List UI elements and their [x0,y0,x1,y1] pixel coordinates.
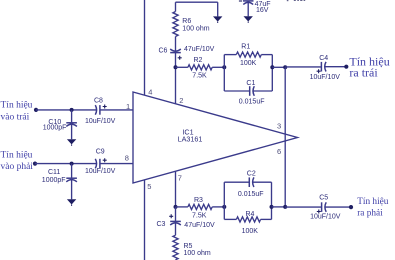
label output left line2 [349,65,378,79]
label C2 value [238,191,264,198]
capacitor C4 [321,62,326,72]
svg-text:7.5K: 7.5K [192,72,207,79]
plus C9 [103,158,107,162]
op-amp IC1 LA3161 triangle [133,92,298,183]
svg-text:vào trái: vào trái [1,113,30,123]
label input left line2 [1,113,30,123]
label C10 value [43,125,67,132]
plus C6 [178,56,182,60]
node pin7/R3 junction [174,205,178,209]
pin 8 label [125,154,129,163]
pin 3 label [277,122,281,131]
label C1 [246,80,255,87]
wire pin4 vertical [144,0,146,95]
label input right line1 [1,151,33,161]
wire output right [325,206,351,208]
svg-text:6: 6 [277,147,281,156]
label C9 [96,149,105,156]
node R3/C2R4 junction [222,205,226,209]
svg-text:vào phải: vào phải [1,162,34,172]
svg-text:R2: R2 [194,57,203,64]
svg-text:Tín hiệu: Tín hiệu [357,197,389,207]
node C11 junction [70,162,74,166]
capacitor C6 [170,49,181,67]
svg-text:R1: R1 [241,44,250,51]
svg-text:C1: C1 [246,80,255,87]
svg-text:C9: C9 [96,149,105,156]
wire to C5 [285,206,321,208]
pin 7 label [178,173,182,182]
wire pin8 [100,163,133,165]
label C5 [319,195,328,202]
svg-text:C5: C5 [319,195,328,202]
svg-text:0.015uF: 0.015uF [239,98,265,105]
svg-text:C11: C11 [48,169,60,176]
label C5 value [310,213,341,220]
wire R6 top rail [176,1,218,3]
svg-text:16V: 16V [256,7,269,14]
resistor R3 [176,204,225,209]
svg-text:8: 8 [125,154,129,163]
plus 47uF cap [239,0,242,2]
svg-text:7: 7 [178,173,182,182]
wire input left [36,109,96,111]
label input right line2 [1,162,34,172]
capacitor C1 [224,86,272,96]
label LA3161 [178,135,203,144]
output terminal right [349,205,353,209]
label R2 value [192,72,207,79]
resistor R5 [173,223,178,260]
svg-text:R5: R5 [184,243,193,250]
svg-text:100K: 100K [242,228,259,235]
svg-text:C3: C3 [157,221,166,228]
wire pin5 vertical [144,180,146,260]
wire pin7 vertical [175,171,177,207]
svg-text:ra phải: ra phải [357,208,383,218]
svg-text:47uF/10V: 47uF/10V [184,46,215,53]
wire input right [35,163,96,165]
label C3 value [184,222,215,229]
plus C3 [169,214,173,218]
label C9 value [85,168,116,175]
ground arrow top rail [213,2,222,23]
svg-text:C4: C4 [319,55,328,62]
wire to C4 [285,66,321,68]
svg-text:R6: R6 [182,18,191,25]
clipped text fragment [287,0,305,1]
svg-text:C2: C2 [247,170,256,177]
svg-text:ra trái: ra trái [349,65,378,79]
wire pin1 [100,109,133,111]
pin 5 label [147,182,151,191]
wire output left [325,66,347,68]
ground arrow C11 [67,180,76,206]
label R4 value [242,228,259,235]
svg-text:C6: C6 [159,47,168,54]
svg-text:Tín hiệu: Tín hiệu [1,151,33,161]
pin 1 label [126,102,130,111]
label C11 value [42,177,66,184]
label 47uF [255,1,271,8]
pin 2 label [179,96,183,105]
label output left line1 [349,54,389,68]
label C6 value [184,46,215,53]
capacitor C3 [170,207,181,225]
label C10 [48,119,61,126]
resistor R2 [176,65,225,70]
wire pin2 vertical [175,67,177,104]
node R1C1 output [270,65,274,69]
label R1 value [240,60,257,67]
svg-text:1000pF: 1000pF [42,177,66,184]
capacitor C9 [95,159,100,169]
svg-text:0.015uF: 0.015uF [238,191,264,198]
capacitor C11 [66,164,77,182]
node pin2/R2 junction [174,65,178,69]
resistor R4 [224,217,271,222]
wire C2R4 left branch [223,182,225,219]
resistor R1 [224,52,272,57]
wire R1C1 right branch [271,55,273,91]
wire output bus vertical [284,67,286,207]
label C6 [159,47,168,54]
ground arrow 47uF cap [244,16,253,23]
label C4 [319,55,328,62]
label R3 value [192,213,207,220]
svg-text:R3: R3 [194,197,203,204]
svg-text:10uF/10V: 10uF/10V [85,118,116,125]
label C2 [247,170,256,177]
node C10 junction [70,108,74,112]
plus C4 [317,69,321,73]
label R4 [246,211,255,218]
node R2/R1C1 junction [222,65,226,69]
svg-text:4: 4 [148,87,152,96]
capacitor C8 [95,105,100,115]
label C1 value [239,98,265,105]
node C2R4 output [270,205,274,209]
svg-text:100 ohm: 100 ohm [184,250,211,257]
svg-text:R4: R4 [246,211,255,218]
label R5 value [184,250,211,257]
pin 6 label [277,147,281,156]
label R5 [184,243,193,250]
capacitor 47uF-16V [243,1,254,16]
svg-text:C8: C8 [94,97,103,104]
label output right line1 [357,197,389,207]
label C3 [157,221,166,228]
svg-text:100K: 100K [240,60,257,67]
label R3 [194,197,203,204]
label R6 [182,18,191,25]
output terminal left [344,65,348,69]
svg-text:100 ohm: 100 ohm [182,26,209,33]
label R1 [241,44,250,51]
svg-text:10uF/10V: 10uF/10V [85,168,116,175]
input terminal right [33,162,37,166]
svg-text:7.5K: 7.5K [192,213,207,220]
label C8 [94,97,103,104]
svg-text:1000pF: 1000pF [43,125,67,132]
svg-text:3: 3 [277,122,281,131]
label R2 [194,57,203,64]
ground arrow C10 [67,124,76,145]
label IC1 [182,128,193,137]
node pin6 [283,205,287,209]
input terminal left [34,108,38,112]
label 16V [256,7,269,14]
label C4 value [310,74,341,81]
svg-text:Tín hiệu: Tín hiệu [1,101,33,111]
label input left line1 [1,101,33,111]
plus C8 [103,105,107,109]
plus C5 [317,210,321,214]
svg-text:2: 2 [179,96,183,105]
label C8 value [85,118,116,125]
wire R1C1 left branch [223,55,225,91]
label R6 value [182,26,209,33]
pin 4 label [148,87,152,96]
capacitor C10 [66,110,77,127]
svg-text:47uF/10V: 47uF/10V [184,222,215,229]
svg-text:10uF/10V: 10uF/10V [310,213,341,220]
svg-text:10uF/10V: 10uF/10V [310,74,341,81]
capacitor C5 [322,202,327,212]
capacitor C2 [224,177,271,187]
wire to pin3 node [272,66,285,68]
wire to pin6 node [272,206,286,208]
node pin3 [283,65,287,69]
label output right line2 [357,208,383,218]
resistor R6 [173,2,178,51]
label C11 [48,169,60,176]
svg-text:5: 5 [147,182,151,191]
svg-text:LA3161: LA3161 [178,135,203,144]
wire C2R4 right branch [271,182,273,219]
